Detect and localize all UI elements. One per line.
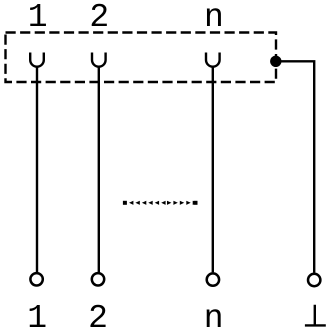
socket contact 2 bbox=[92, 53, 106, 67]
wire from junction to ground terminal bbox=[276, 61, 314, 272]
junction dot on box right edge bbox=[270, 56, 281, 67]
socket contact n bbox=[206, 53, 220, 67]
svg-text:2: 2 bbox=[89, 0, 109, 36]
svg-text:2: 2 bbox=[88, 300, 108, 329]
terminal circle ground bbox=[308, 274, 320, 286]
ellipsis continuation marks bbox=[123, 201, 198, 205]
svg-text:1: 1 bbox=[28, 0, 48, 36]
terminal circle 2 bbox=[92, 273, 104, 285]
dashed enclosure box bbox=[6, 33, 277, 83]
terminal circle n bbox=[207, 273, 219, 285]
svg-text:1: 1 bbox=[27, 300, 47, 329]
wire n bbox=[212, 67, 214, 273]
svg-text:n: n bbox=[204, 300, 224, 329]
terminal circle 1 bbox=[30, 273, 42, 285]
wire 2 bbox=[98, 67, 100, 273]
socket contact 1 bbox=[30, 53, 44, 67]
wire 1 bbox=[36, 67, 38, 273]
svg-text:n: n bbox=[204, 0, 224, 36]
ground terminal symbol bbox=[305, 305, 326, 326]
